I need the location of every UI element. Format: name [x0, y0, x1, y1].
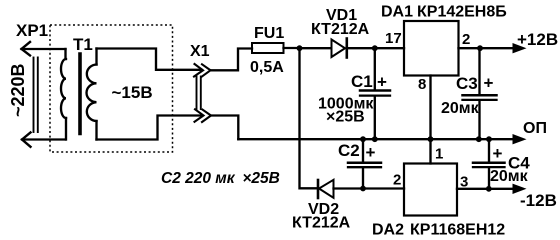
- svg-text:С2: С2: [338, 141, 360, 160]
- svg-text:2: 2: [462, 31, 470, 48]
- svg-text:20мк: 20мк: [441, 100, 480, 117]
- svg-text:3: 3: [460, 174, 468, 191]
- svg-text:DA2: DA2: [372, 222, 404, 239]
- svg-text:Х1: Х1: [190, 43, 210, 60]
- svg-text:С2 220 мк ×25В: С2 220 мк ×25В: [161, 170, 280, 187]
- svg-text:8: 8: [418, 76, 426, 93]
- svg-text:+: +: [366, 143, 376, 162]
- svg-text:+12В: +12В: [517, 30, 558, 49]
- svg-text:17: 17: [385, 30, 402, 47]
- svg-text:С1: С1: [351, 72, 373, 91]
- svg-text:+: +: [377, 73, 387, 92]
- svg-text:0,5А: 0,5А: [250, 59, 284, 76]
- svg-text:КТ212А: КТ212А: [311, 21, 370, 38]
- svg-text:DA1: DA1: [381, 4, 413, 21]
- svg-text:ХР1: ХР1: [16, 21, 48, 40]
- svg-text:Т1: Т1: [73, 35, 93, 54]
- svg-text:КР1168ЕН12: КР1168ЕН12: [410, 222, 505, 239]
- svg-text:2: 2: [393, 172, 401, 189]
- svg-text:FU1: FU1: [254, 25, 284, 42]
- svg-text:~15В: ~15В: [112, 83, 153, 102]
- svg-text:20мк: 20мк: [490, 168, 529, 185]
- svg-text:-12В: -12В: [520, 191, 557, 210]
- svg-text:ОП: ОП: [523, 120, 547, 137]
- svg-text:1: 1: [435, 146, 443, 163]
- svg-text:~220В: ~220В: [8, 63, 28, 117]
- svg-text:+: +: [484, 74, 494, 93]
- svg-text:+: +: [493, 144, 503, 163]
- svg-text:×25В: ×25В: [326, 109, 365, 126]
- svg-text:КР142ЕН8Б: КР142ЕН8Б: [417, 4, 507, 21]
- svg-text:КТ212А: КТ212А: [292, 215, 351, 232]
- svg-text:С3: С3: [456, 74, 478, 93]
